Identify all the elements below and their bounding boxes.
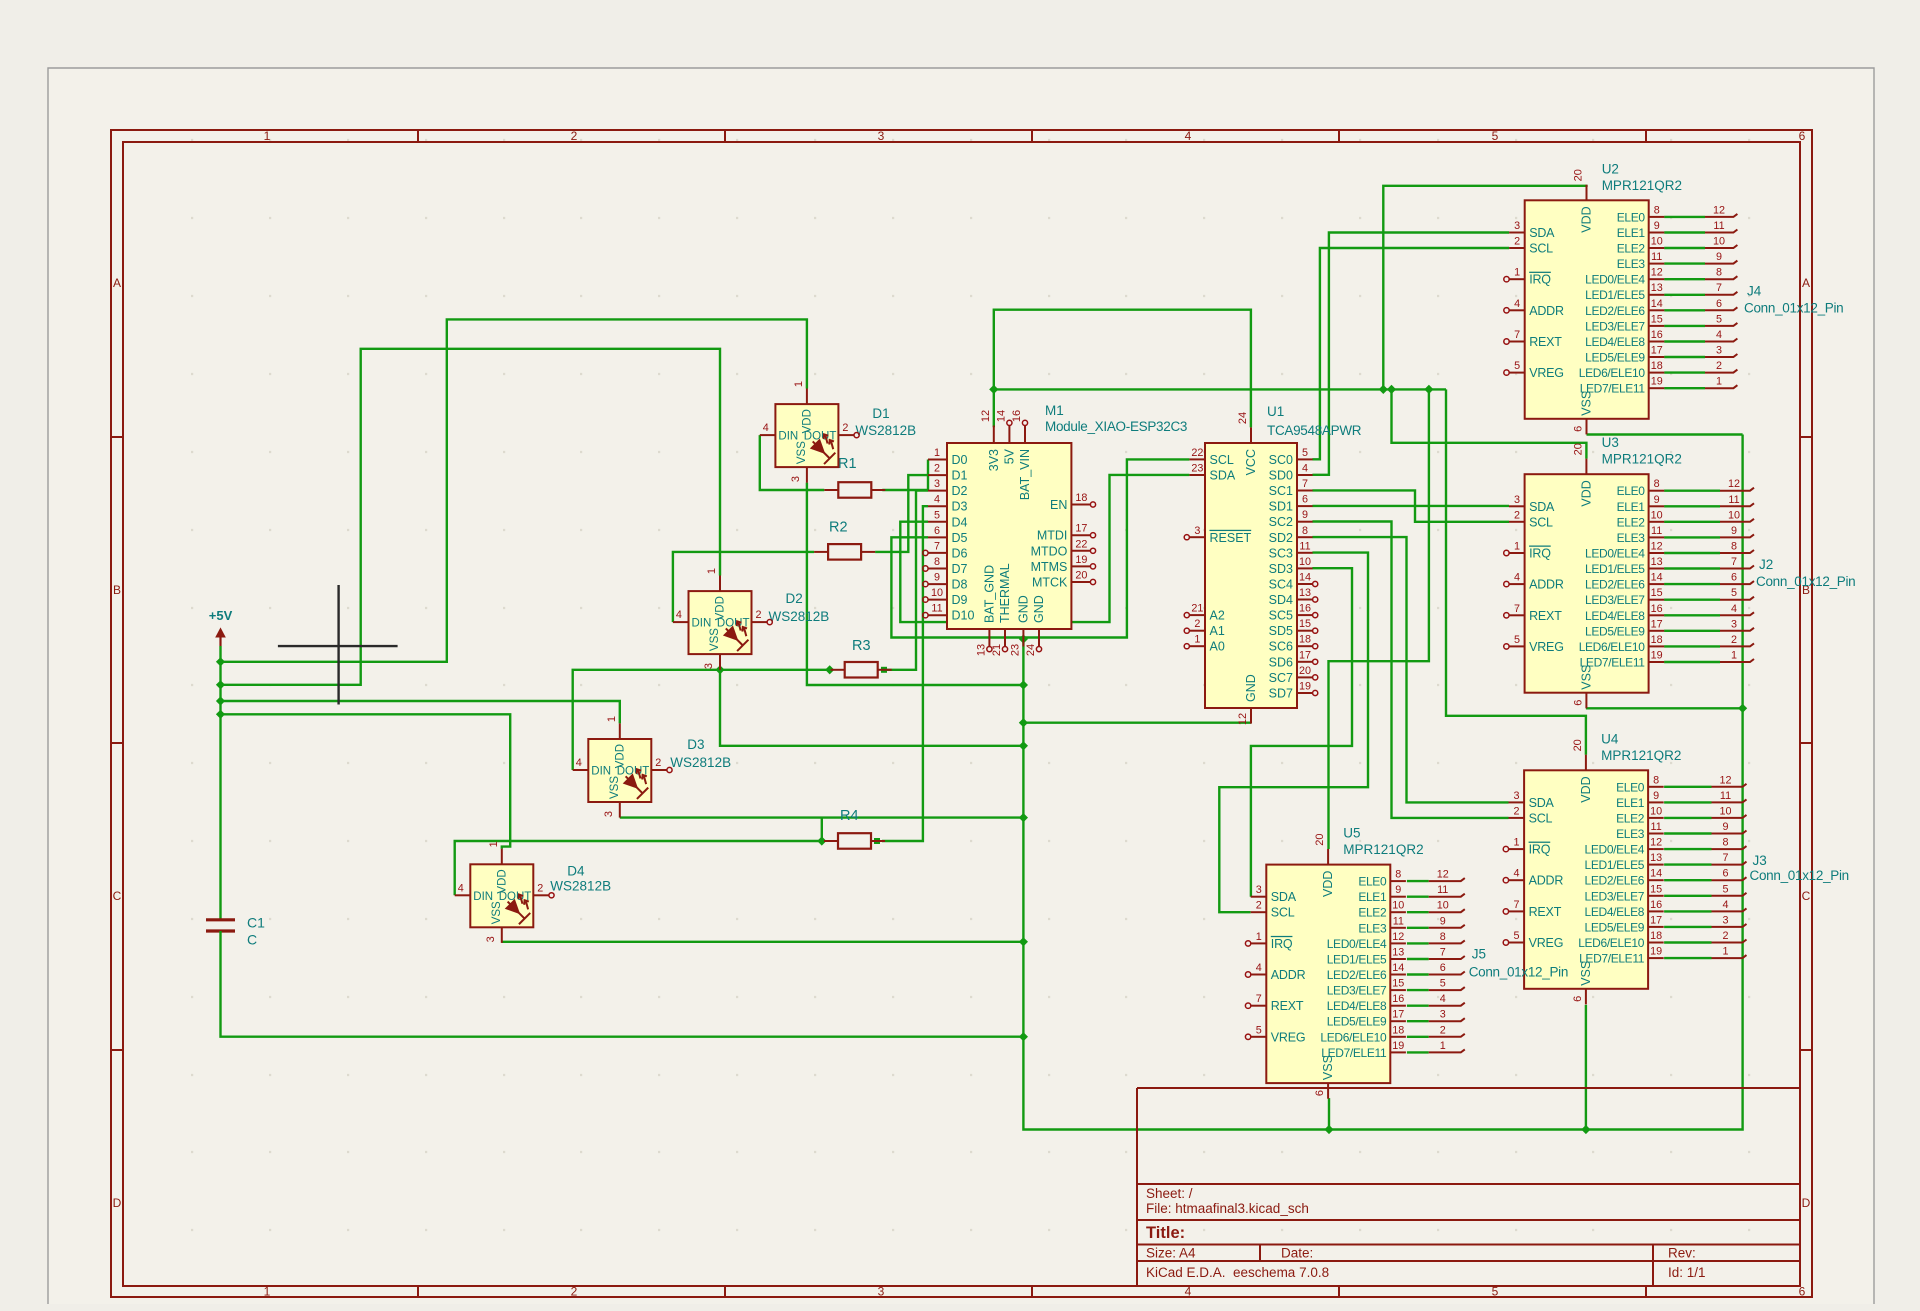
wire M1 GND spine down [1023,435,1742,1130]
U1 pin 9 SC2 [1297,521,1313,523]
junction GND U4 VSS [1581,1125,1590,1134]
svg-text:1: 1 [1514,541,1520,553]
svg-text:2: 2 [655,757,661,769]
svg-text:GND: GND [1032,595,1046,623]
svg-text:2: 2 [842,422,848,434]
D1 pin 2 DOUT [838,434,854,436]
svg-text:11: 11 [1728,494,1739,506]
M1 pin 20 MTCK [1071,581,1090,583]
wire U2 to J4 pin row 4 [1664,278,1705,280]
svg-text:13: 13 [975,644,987,656]
wire U1 SC0 to U2 SCL [1312,248,1509,459]
M1 pin 18 EN [1071,504,1090,506]
module M1 XIAO-ESP32C3 body [947,443,1071,629]
U5 pin 18 LED6/ELE10 [1390,1036,1406,1038]
J3 pin 2 [1712,940,1747,943]
J3 pin 4 [1712,908,1747,911]
wire U3 to J2 pin row 0 [1664,490,1720,492]
svg-text:D1: D1 [952,469,968,483]
U3 pin 10 ELE2 [1649,521,1665,523]
svg-text:20: 20 [1299,665,1311,677]
J2 pin 5 [1720,597,1754,600]
junction R4 left [817,836,826,845]
U4 pin 9 ELE1 [1648,801,1664,803]
svg-text:SDA: SDA [1210,469,1236,483]
svg-text:VSS: VSS [1321,1055,1335,1080]
svg-text:DIN: DIN [473,891,493,903]
svg-text:BAT_GND: BAT_GND [982,565,996,623]
svg-text:VREG: VREG [1529,936,1564,950]
svg-text:10: 10 [1392,900,1404,912]
U4 pin 14 LED2/ELE6 [1648,879,1664,881]
border outer frame [111,130,1812,1297]
svg-text:3: 3 [1514,220,1520,232]
svg-text:R1: R1 [838,456,857,472]
U4 pin 1 IRQ [1509,848,1525,850]
svg-text:VDD: VDD [715,596,727,620]
wire U2 to J4 pin row 0 [1664,216,1705,218]
svg-text:Date:: Date: [1281,1246,1313,1261]
J3 pin 9 [1712,831,1747,834]
J3 pin 3 [1712,924,1747,927]
svg-text:ELE1: ELE1 [1617,500,1646,514]
svg-text:MTCK: MTCK [1032,576,1068,590]
capacitor C1 body [206,918,235,921]
U1 pin 7 SC1 [1297,490,1313,492]
wire R1 right to M1 D0 [882,460,928,491]
svg-text:Conn_01x12_Pin: Conn_01x12_Pin [1469,965,1568,980]
svg-text:3: 3 [1722,914,1728,926]
wire U5 to J5 pin row 0 [1407,880,1429,882]
wire U4 VSS to GND bus [1585,1005,1587,1130]
junction D2 VSS node [715,665,724,674]
U4 pin 2 SCL [1509,817,1525,819]
svg-text:GND: GND [1016,595,1030,623]
U2 pin 6 VSS [1586,419,1588,435]
D3 pin 1 VDD [619,723,621,739]
J5 pin 9 [1429,925,1465,928]
R3 right lead [878,669,892,671]
svg-text:6: 6 [1799,129,1806,143]
U3 pin 8 ELE0 [1649,490,1665,492]
svg-text:6: 6 [1572,996,1584,1002]
svg-text:5: 5 [1514,634,1520,646]
junction VDD bus / U5 [1424,385,1433,394]
U1 pin 3 RESET [1189,536,1205,538]
svg-text:20: 20 [1572,739,1584,751]
svg-text:12: 12 [1650,837,1662,849]
U1 pin 14 SC4 [1297,583,1313,585]
U4 pin 11 ELE3 [1648,833,1664,835]
svg-text:12: 12 [1237,713,1249,725]
J5 pin 11 [1429,894,1465,897]
wire U5 to J5 pin row 3 [1407,927,1429,929]
svg-text:LED0/ELE4: LED0/ELE4 [1327,937,1387,951]
M1 pin 2 D1 [928,474,947,476]
svg-text:9: 9 [1395,884,1401,896]
J4 pin 12 [1705,214,1737,217]
svg-text:LED0/ELE4: LED0/ELE4 [1585,843,1645,857]
svg-text:LED6/ELE10: LED6/ELE10 [1579,366,1646,380]
svg-text:SCL: SCL [1271,906,1295,920]
svg-text:2: 2 [1722,930,1728,942]
svg-text:23: 23 [1191,463,1203,475]
svg-text:REXT: REXT [1529,609,1562,623]
svg-text:4: 4 [1514,298,1520,310]
svg-text:6: 6 [1314,1090,1326,1096]
svg-text:1: 1 [488,841,500,847]
wire U1 GND to spine [1023,722,1251,724]
svg-text:VSS: VSS [609,776,621,799]
svg-text:ELE1: ELE1 [1358,890,1387,904]
svg-text:ADDR: ADDR [1529,874,1564,888]
wire U4 to J3 pin row 7 [1664,895,1711,897]
wire U4 to J3 pin row 8 [1664,910,1711,912]
svg-text:19: 19 [1651,650,1663,662]
grid dots [191,140,1750,1230]
J2 pin 9 [1720,534,1754,537]
wire U4 to J3 pin row 4 [1664,848,1711,850]
svg-text:IRQ: IRQ [1529,547,1551,561]
wire bus to U4 VDD [1446,389,1586,754]
U5 pin 19 LED7/ELE11 [1390,1051,1406,1053]
wire M1 D4 SDA to U1 SDA [900,475,1189,622]
wire U5 to J5 pin row 2 [1407,911,1429,913]
wire +5V to D4 VDD [221,714,511,848]
M1 pin 1 D0 [928,459,947,461]
M1 pin 23 GND [1022,629,1024,647]
graphic line vertical (cross) [337,585,339,705]
U5 pin 1 IRQ [1251,942,1267,944]
wire U5 to J5 pin row 1 [1407,896,1429,898]
svg-text:2: 2 [1513,805,1519,817]
svg-text:1: 1 [934,447,940,459]
junction VDD bus / U3 [1387,385,1396,394]
U1 pin 23 SDA [1189,474,1205,476]
svg-text:10: 10 [1299,556,1311,568]
svg-text:VDD: VDD [1579,776,1593,802]
wire U3 VSS to spine [1586,707,1743,709]
svg-text:EN: EN [1050,498,1067,512]
U5 pin 8 ELE0 [1390,880,1406,882]
wire U2 to J4 pin row 6 [1664,309,1705,311]
svg-text:ELE3: ELE3 [1617,257,1646,271]
svg-text:VDD: VDD [496,869,508,893]
U4 pin 20 VDD [1585,755,1587,771]
svg-text:15: 15 [1651,587,1663,599]
J5 pin 3 [1429,1018,1465,1021]
svg-text:LED5/ELE9: LED5/ELE9 [1585,920,1645,934]
svg-text:17: 17 [1075,523,1087,535]
D1 pin 4 DIN [760,434,776,436]
svg-text:4: 4 [1302,463,1308,475]
svg-text:LED1/ELE5: LED1/ELE5 [1585,288,1645,302]
U2 pin 1 IRQ [1509,278,1525,280]
svg-text:8: 8 [1395,869,1401,881]
wire U4 to J3 pin row 3 [1664,832,1711,834]
svg-text:D3: D3 [952,500,968,514]
svg-text:1: 1 [264,129,271,143]
M1 pin 22 MTDO [1071,550,1090,552]
svg-text:1: 1 [706,568,718,574]
svg-text:9: 9 [1653,790,1659,802]
M1 pin 13 BAT_GND [988,629,990,647]
svg-text:LED4/ELE8: LED4/ELE8 [1585,905,1645,919]
svg-text:10: 10 [1650,805,1662,817]
svg-text:U5: U5 [1343,826,1360,841]
junction GND D1 [1019,680,1028,689]
wire D1 DIN to R1 left [760,435,825,490]
svg-text:14: 14 [1651,572,1663,584]
U2 pin 3 SDA [1509,232,1525,234]
svg-text:RESET: RESET [1210,531,1252,545]
svg-text:D5: D5 [952,531,968,545]
wire U1 SD2 to U4 SDA [1312,537,1508,802]
svg-text:7: 7 [1716,282,1722,294]
svg-text:3: 3 [703,663,715,669]
svg-text:SDA: SDA [1529,500,1555,514]
svg-text:Size: A4: Size: A4 [1146,1246,1196,1261]
svg-text:10: 10 [931,587,943,599]
svg-text:13: 13 [1650,852,1662,864]
svg-text:14: 14 [1392,962,1404,974]
resistor R2 body [828,544,861,560]
svg-text:4: 4 [1185,129,1192,143]
wire U3 to J2 pin row 5 [1664,567,1720,569]
svg-text:C: C [113,889,122,903]
U3 pin 4 ADDR [1509,583,1525,585]
LED D1 WS2812B body [775,404,838,467]
svg-text:9: 9 [1716,251,1722,263]
U1 pin 2 A1 [1189,630,1205,632]
svg-text:5: 5 [1722,883,1728,895]
svg-text:2: 2 [537,882,543,894]
U4 pin 5 VREG [1509,942,1525,944]
svg-text:SC3: SC3 [1269,546,1293,560]
svg-text:LED0/ELE4: LED0/ELE4 [1585,547,1645,561]
D2 pin 3 VSS [719,654,721,670]
U1 pin 11 SC3 [1297,552,1313,554]
U2 pin 11 ELE3 [1649,263,1665,265]
svg-text:VSS: VSS [1579,665,1593,690]
svg-text:14: 14 [1299,572,1311,584]
J2 pin 10 [1720,519,1754,522]
svg-text:1: 1 [1513,837,1519,849]
svg-text:LED2/ELE6: LED2/ELE6 [1585,578,1645,592]
svg-text:U2: U2 [1602,161,1619,176]
svg-text:J5: J5 [1472,946,1486,961]
svg-text:VSS: VSS [491,901,503,924]
svg-text:A2: A2 [1210,609,1225,623]
svg-text:4: 4 [1514,572,1520,584]
IC U1 TCA9548APWR body [1205,443,1297,708]
svg-text:8: 8 [1302,525,1308,537]
wire U2 to J4 pin row 7 [1664,325,1705,327]
svg-text:TCA9548APWR: TCA9548APWR [1267,423,1362,438]
J4 pin 11 [1705,230,1737,233]
M1 pin 9 D8 [928,583,947,585]
svg-text:11: 11 [1651,251,1662,263]
svg-text:SCL: SCL [1529,242,1553,256]
svg-text:R4: R4 [840,808,859,824]
wire +5V vertical rail to C1 [219,646,221,920]
wire U4 to J3 pin row 9 [1664,926,1711,928]
svg-text:12: 12 [1719,774,1731,786]
svg-text:LED3/ELE7: LED3/ELE7 [1585,889,1645,903]
U4 pin 10 ELE2 [1648,817,1664,819]
svg-text:IRQ: IRQ [1529,843,1551,857]
svg-text:VREG: VREG [1271,1030,1306,1044]
svg-text:7: 7 [1514,603,1520,615]
svg-text:ELE0: ELE0 [1616,780,1645,794]
svg-text:D: D [113,1196,122,1210]
R1 left lead [824,489,838,491]
U4 pin 7 REXT [1509,910,1525,912]
svg-text:6: 6 [1722,868,1728,880]
wire U5 to J5 pin row 4 [1407,942,1429,944]
U4 pin 4 ADDR [1509,879,1525,881]
U2 pin 20 VDD [1586,185,1588,201]
J5 pin 5 [1429,987,1465,990]
svg-text:SD5: SD5 [1269,624,1293,638]
svg-text:LED2/ELE6: LED2/ELE6 [1585,874,1645,888]
svg-text:LED3/ELE7: LED3/ELE7 [1327,984,1387,998]
M1 pin 7 D6 [928,552,947,554]
svg-text:+5V: +5V [209,608,233,623]
svg-text:VCC: VCC [1244,449,1258,475]
wire U3 to J2 pin row 7 [1664,599,1720,601]
svg-text:SDA: SDA [1271,890,1297,904]
svg-text:Conn_01x12_Pin: Conn_01x12_Pin [1756,574,1855,589]
svg-text:4: 4 [576,757,582,769]
U5 pin 17 LED5/ELE9 [1390,1020,1406,1022]
U3 pin 20 VDD [1585,459,1587,475]
svg-text:4: 4 [1716,329,1722,341]
R3 left lead [831,669,845,671]
svg-text:THERMAL: THERMAL [998,563,1012,623]
U1 pin 5 SC0 [1297,458,1313,460]
D1 pin 3 VSS [806,467,808,483]
svg-text:9: 9 [1731,525,1737,537]
svg-text:ADDR: ADDR [1529,578,1564,592]
svg-text:5: 5 [1302,447,1308,459]
svg-text:11: 11 [1650,821,1661,833]
svg-text:9: 9 [1654,494,1660,506]
svg-text:13: 13 [1299,587,1311,599]
svg-text:3: 3 [1194,525,1200,537]
svg-text:12: 12 [1651,541,1663,553]
svg-text:WS2812B: WS2812B [769,609,830,624]
J3 pin 6 [1712,877,1747,880]
U2 pin 12 LED0/ELE4 [1649,278,1665,280]
U3 pin 11 ELE3 [1649,536,1665,538]
J4 pin 4 [1705,339,1737,342]
svg-text:LED3/ELE7: LED3/ELE7 [1585,593,1645,607]
U1 pin 16 SC5 [1297,614,1313,616]
svg-text:BAT_VIN: BAT_VIN [1018,449,1032,500]
svg-text:19: 19 [1075,554,1087,566]
wire bus to U5 VDD [1329,389,1429,849]
resistor R1 body [838,482,871,498]
svg-text:D4: D4 [567,863,585,878]
border inner frame [123,142,1800,1286]
svg-text:A: A [1802,276,1810,290]
junction GND D3 [1019,813,1028,822]
svg-text:D4: D4 [952,515,968,529]
J5 pin 6 [1429,972,1465,975]
U1 pin 8 SD2 [1297,536,1313,538]
svg-text:12: 12 [1437,869,1449,881]
D2 pin 4 DIN [673,621,689,623]
wire bus to U2 VDD [1383,185,1586,390]
svg-text:A1: A1 [1210,624,1225,638]
svg-text:SCL: SCL [1210,453,1234,467]
svg-text:9: 9 [1722,821,1728,833]
svg-text:23: 23 [1009,644,1021,656]
svg-text:10: 10 [1651,509,1663,521]
svg-text:LED5/ELE9: LED5/ELE9 [1327,1015,1387,1029]
D1 pin 1 VDD [806,389,808,405]
svg-text:LED6/ELE10: LED6/ELE10 [1578,936,1645,950]
svg-text:1: 1 [1514,267,1520,279]
svg-text:ELE0: ELE0 [1617,210,1646,224]
svg-text:2: 2 [1716,360,1722,372]
U4 pin 18 LED6/ELE10 [1648,942,1664,944]
J2 pin 1 [1720,659,1754,662]
wire U2 to J4 pin row 9 [1664,356,1705,358]
IC U4 MPR121QR2 body [1524,770,1648,989]
J5 pin 2 [1429,1034,1465,1037]
svg-text:2: 2 [571,129,578,143]
junction R3 left [825,665,834,674]
svg-text:2: 2 [755,609,761,621]
D4 pin 3 VSS [501,927,503,943]
svg-text:6: 6 [934,525,940,537]
junction +5V/D3 [216,696,225,705]
wire U2 to J4 pin row 3 [1664,262,1705,264]
svg-text:5: 5 [1492,1285,1499,1299]
svg-text:1: 1 [1716,376,1722,388]
svg-text:18: 18 [1299,634,1311,646]
svg-text:File: htmaafinal3.kicad_sch: File: htmaafinal3.kicad_sch [1146,1201,1309,1216]
svg-text:3V3: 3V3 [987,449,1001,471]
M1 pin 24 GND [1038,629,1040,647]
junction GND at M1 [1019,634,1028,643]
svg-text:REXT: REXT [1529,335,1562,349]
svg-text:16: 16 [1392,993,1404,1005]
svg-text:SC7: SC7 [1269,671,1293,685]
svg-text:VSS: VSS [1579,961,1593,986]
wire U3 to J2 pin row 1 [1664,505,1720,507]
J5 pin 1 [1429,1049,1465,1052]
svg-text:LED2/ELE6: LED2/ELE6 [1585,304,1645,318]
U3 pin 3 SDA [1509,505,1525,507]
U2 pin 9 ELE1 [1649,232,1665,234]
svg-text:14: 14 [1650,868,1662,880]
M1 pin 4 D3 [928,505,947,507]
wire U5 to J5 pin row 9 [1407,1020,1429,1022]
U4 pin 3 SDA [1509,801,1525,803]
J4 pin 6 [1705,307,1737,310]
wire D4 VSS to GND spine [502,941,1024,943]
svg-text:17: 17 [1299,649,1311,661]
svg-text:KiCad E.D.A. eeschema 7.0.8: KiCad E.D.A. eeschema 7.0.8 [1146,1265,1329,1280]
svg-text:DIN: DIN [591,766,611,778]
svg-text:15: 15 [1650,883,1662,895]
R4 right lead [871,840,885,842]
svg-text:R2: R2 [829,520,848,536]
svg-text:6: 6 [1731,572,1737,584]
